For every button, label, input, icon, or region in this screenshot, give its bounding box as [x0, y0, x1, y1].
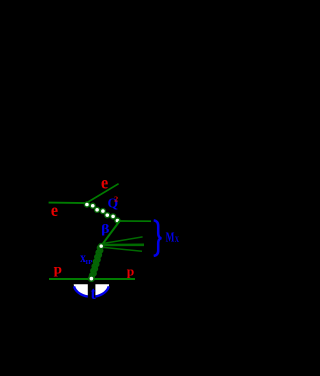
svg-text:M: M — [166, 231, 175, 246]
svg-text:e: e — [101, 173, 108, 193]
svg-text:β: β — [101, 221, 110, 236]
scattered electron line — [86, 184, 118, 203]
proton line — [49, 278, 135, 280]
svg-text:p: p — [54, 262, 62, 277]
svg-text:t: t — [91, 283, 96, 303]
label p (incoming proton) — [54, 262, 62, 277]
label IP subscript — [85, 259, 92, 266]
pomeron exchange chain — [90, 246, 103, 278]
incoming electron line — [49, 202, 87, 205]
fan line upper — [104, 237, 143, 244]
fan line middle — [104, 244, 145, 247]
svg-text:p: p — [127, 265, 135, 279]
blob vertex circle — [99, 244, 104, 249]
label t — [91, 283, 96, 303]
label Q — [108, 197, 119, 212]
diagonal line photon vertex to blob — [101, 221, 119, 246]
svg-text:X: X — [175, 235, 179, 244]
t annotation half ellipse — [74, 284, 109, 297]
label beta — [101, 221, 110, 236]
brace for MX — [154, 220, 162, 256]
label superscript 2 of Q2 — [114, 194, 118, 203]
t annotation black gap sector — [88, 283, 96, 299]
top MX system line — [120, 220, 151, 222]
label p (scattered proton) — [127, 265, 135, 279]
label X subscript of MX — [175, 235, 179, 244]
label x — [80, 251, 86, 266]
label e (scattered electron) — [101, 173, 108, 193]
fan line lower — [104, 247, 143, 251]
label M of MX — [166, 231, 175, 246]
svg-text:IP: IP — [85, 259, 92, 266]
svg-text:2: 2 — [114, 194, 118, 203]
svg-text:e: e — [51, 200, 58, 220]
label e (incoming electron) — [51, 200, 58, 220]
photon propagator chain — [84, 202, 120, 223]
proton vertex circle — [89, 276, 94, 281]
